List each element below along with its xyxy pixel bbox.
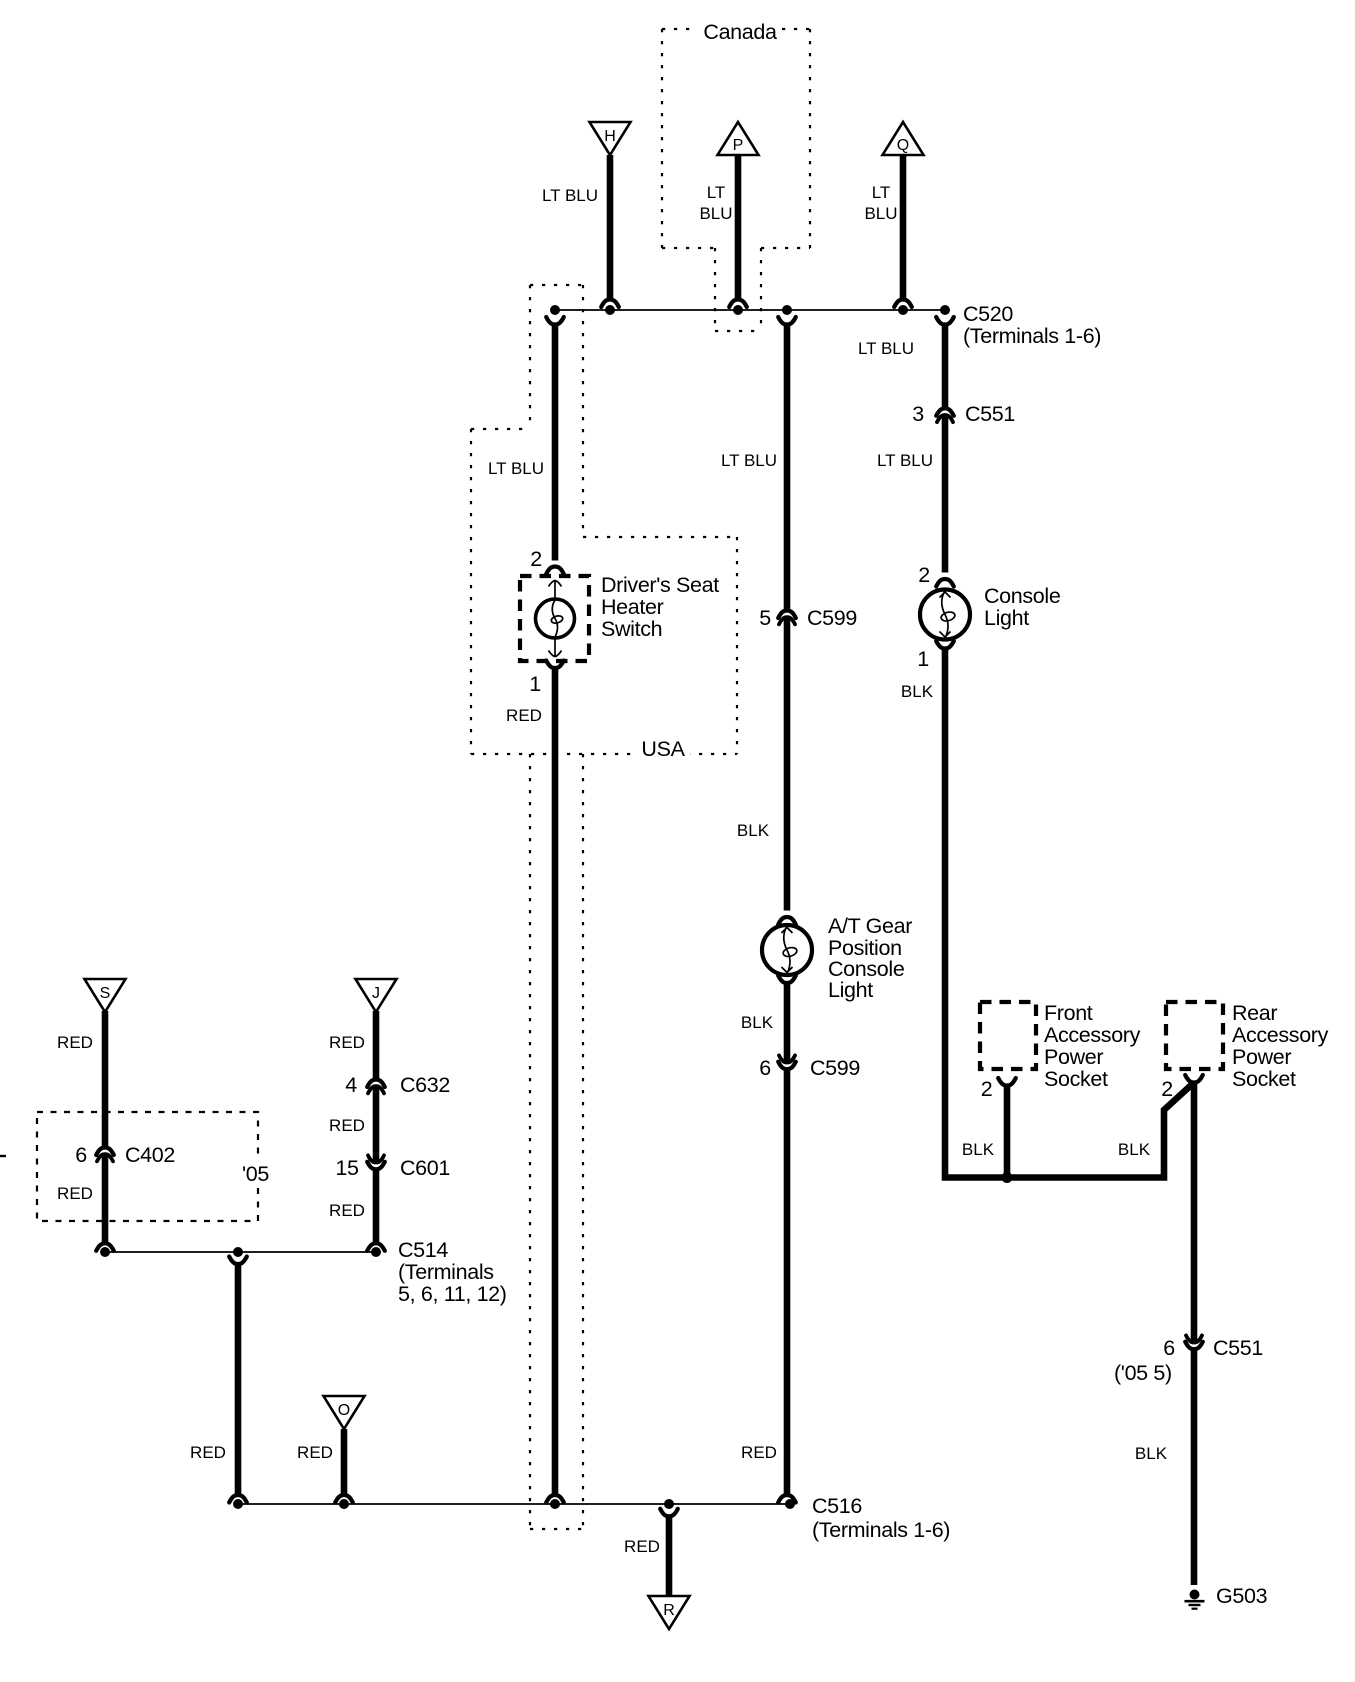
svg-text:'05: '05	[242, 1162, 269, 1186]
svg-text:6: 6	[1163, 1336, 1175, 1360]
svg-text:RED: RED	[506, 706, 542, 725]
svg-text:Socket: Socket	[1232, 1067, 1296, 1091]
svg-text:Front: Front	[1044, 1001, 1093, 1025]
svg-text:BLK: BLK	[1118, 1140, 1151, 1159]
svg-text:Q: Q	[897, 137, 909, 154]
svg-text:LT BLU: LT BLU	[858, 339, 914, 358]
svg-text:C599: C599	[810, 1056, 860, 1080]
svg-text:(Terminals: (Terminals	[398, 1260, 494, 1284]
svg-text:C520: C520	[963, 302, 1013, 326]
svg-text:BLU: BLU	[699, 204, 732, 223]
svg-text:Socket: Socket	[1044, 1067, 1108, 1091]
svg-text:Rear: Rear	[1232, 1001, 1277, 1025]
svg-text:S: S	[100, 985, 111, 1002]
svg-text:C402: C402	[125, 1143, 175, 1167]
svg-text:BLK: BLK	[1135, 1444, 1168, 1463]
svg-text:Accessory: Accessory	[1232, 1023, 1329, 1047]
svg-text:RED: RED	[57, 1184, 93, 1203]
svg-text:Switch: Switch	[601, 617, 662, 641]
svg-text:BLK: BLK	[901, 682, 934, 701]
svg-text:C551: C551	[965, 402, 1015, 426]
svg-text:2: 2	[981, 1077, 993, 1101]
svg-text:G503: G503	[1216, 1584, 1268, 1608]
svg-text:RED: RED	[57, 1033, 93, 1052]
svg-text:LT BLU: LT BLU	[488, 459, 544, 478]
svg-text:Power: Power	[1044, 1045, 1103, 1069]
svg-text:RED: RED	[741, 1443, 777, 1462]
svg-text:RED: RED	[624, 1537, 660, 1556]
svg-text:RED: RED	[190, 1443, 226, 1462]
svg-text:BLK: BLK	[962, 1140, 995, 1159]
svg-text:Heater: Heater	[601, 595, 664, 619]
svg-text:2: 2	[918, 563, 930, 587]
svg-text:Light: Light	[984, 606, 1029, 630]
svg-text:R: R	[663, 1602, 675, 1619]
svg-text:P: P	[733, 137, 744, 154]
svg-text:LT BLU: LT BLU	[877, 451, 933, 470]
svg-text:C514: C514	[398, 1238, 448, 1262]
svg-text:4: 4	[345, 1073, 357, 1097]
svg-text:O: O	[338, 1402, 350, 1419]
svg-text:LT: LT	[707, 183, 726, 202]
svg-text:Light: Light	[828, 978, 873, 1002]
svg-text:J: J	[372, 985, 380, 1002]
svg-text:3: 3	[912, 402, 924, 426]
svg-text:LT: LT	[872, 183, 891, 202]
svg-text:BLK: BLK	[741, 1013, 774, 1032]
svg-text:Console: Console	[984, 584, 1060, 608]
svg-text:5, 6, 11, 12): 5, 6, 11, 12)	[398, 1282, 507, 1306]
svg-text:RED: RED	[329, 1033, 365, 1052]
svg-text:2: 2	[530, 547, 542, 571]
svg-text:C601: C601	[400, 1156, 450, 1180]
svg-text:RED: RED	[329, 1116, 365, 1135]
svg-text:C551: C551	[1213, 1336, 1263, 1360]
svg-text:1: 1	[529, 672, 541, 696]
svg-text:Driver's Seat: Driver's Seat	[601, 573, 719, 597]
svg-text:Power: Power	[1232, 1045, 1291, 1069]
svg-text:6: 6	[759, 1056, 771, 1080]
svg-text:Canada: Canada	[703, 20, 777, 44]
svg-text:RED: RED	[329, 1201, 365, 1220]
svg-text:A/T Gear: A/T Gear	[828, 914, 912, 938]
svg-text:C516: C516	[812, 1494, 862, 1518]
svg-text:15: 15	[335, 1156, 359, 1180]
svg-text:BLU: BLU	[864, 204, 897, 223]
svg-text:C599: C599	[807, 606, 857, 630]
svg-text:H: H	[604, 128, 616, 145]
svg-text:C632: C632	[400, 1073, 450, 1097]
svg-text:6: 6	[75, 1143, 87, 1167]
svg-text:('05 5): ('05 5)	[1114, 1361, 1172, 1385]
svg-text:LT BLU: LT BLU	[721, 451, 777, 470]
svg-text:2: 2	[1161, 1077, 1173, 1101]
svg-text:LT BLU: LT BLU	[542, 186, 598, 205]
svg-text:BLK: BLK	[737, 821, 770, 840]
svg-text:(Terminals 1-6): (Terminals 1-6)	[963, 324, 1101, 348]
svg-text:Accessory: Accessory	[1044, 1023, 1141, 1047]
svg-text:USA: USA	[641, 737, 685, 761]
svg-text:1: 1	[917, 647, 929, 671]
svg-text:5: 5	[759, 606, 771, 630]
svg-text:(Terminals 1-6): (Terminals 1-6)	[812, 1518, 950, 1542]
svg-text:RED: RED	[297, 1443, 333, 1462]
